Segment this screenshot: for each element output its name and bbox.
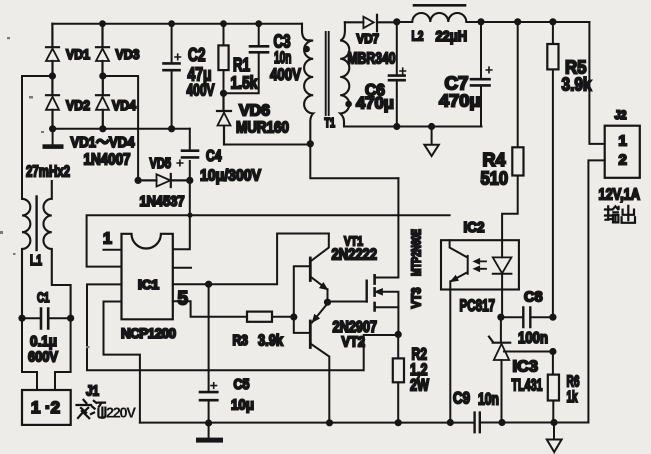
- wire +12V to J2 pin1: [589, 22, 604, 144]
- resistor R1: [218, 24, 228, 94]
- T1 secondary phase dot: [345, 101, 352, 108]
- svg-text:2N2222: 2N2222: [332, 247, 378, 264]
- node ground/C5: [205, 419, 212, 426]
- svg-text:VD1: VD1: [66, 46, 90, 62]
- svg-text:470μ: 470μ: [439, 91, 481, 111]
- wire J2 pin2 return: [588, 160, 604, 422]
- connector J2: [605, 126, 640, 178]
- pin 1 stub: [104, 249, 122, 251]
- resistor R5: [547, 22, 558, 317]
- svg-text:VD4: VD4: [112, 97, 136, 113]
- transistor Q VT1 2N2222: [294, 234, 329, 318]
- node C1 right: [67, 315, 74, 322]
- transistor Q VT2 2N2907: [294, 304, 330, 423]
- capacitor C3: [224, 24, 269, 94]
- node C8 right / R5: [549, 314, 556, 321]
- svg-text:C2: C2: [188, 45, 206, 65]
- node VD5 anode / L1: [135, 177, 142, 184]
- svg-text:C4: C4: [206, 148, 222, 165]
- svg-text:2: 2: [619, 152, 627, 169]
- svg-text:VD1～VD4: VD1～VD4: [71, 134, 136, 151]
- node AC1 (VD1/VD2 junction): [49, 72, 56, 79]
- node R5 top: [549, 18, 556, 25]
- svg-text:400V: 400V: [187, 82, 215, 100]
- wire T1 primary bottom to drain: [310, 144, 398, 178]
- svg-text:1.5k: 1.5k: [231, 73, 258, 93]
- svg-text:600V: 600V: [28, 349, 58, 366]
- resistor R3: [247, 312, 272, 322]
- wire C1 left to J1: [22, 318, 37, 390]
- svg-text:12V,1A: 12V,1A: [599, 187, 641, 204]
- node VD5/C4 (VCC feed): [186, 177, 193, 184]
- optocoupler IC2 PC817: [441, 240, 519, 422]
- svg-text:220V: 220V: [106, 406, 136, 422]
- node R1/C3/VD6: [220, 90, 227, 97]
- IC U1 NCP1200 body: [122, 234, 173, 319]
- svg-text:27mHx2: 27mHx2: [26, 164, 70, 181]
- node VD7/C6/L2: [393, 18, 400, 25]
- svg-text:NCP1200: NCP1200: [121, 326, 176, 341]
- svg-text:VD6: VD6: [239, 103, 270, 120]
- wire pin6 VCC to driver: [173, 234, 329, 285]
- svg-text:C8: C8: [524, 290, 543, 306]
- svg-text:L2: L2: [412, 28, 424, 44]
- svg-text:2N2907: 2N2907: [333, 319, 378, 336]
- svg-text:3.9k: 3.9k: [258, 333, 283, 350]
- node VCC/C5: [205, 281, 212, 288]
- resistor R2: [393, 334, 404, 422]
- svg-text:1N4537: 1N4537: [140, 193, 185, 210]
- node R6 bottom / ground: [550, 419, 557, 426]
- node opto emitter / ground rail: [447, 419, 454, 426]
- svg-text:T1: T1: [325, 116, 336, 130]
- svg-text:C9: C9: [453, 390, 470, 408]
- svg-text:22μH: 22μH: [436, 29, 468, 45]
- wire secondary minus rail: [344, 126, 482, 128]
- capacitor C7: [471, 22, 492, 127]
- svg-text:510: 510: [481, 168, 509, 189]
- svg-text:R6: R6: [567, 374, 580, 391]
- node top rail / R1: [220, 20, 227, 27]
- svg-text:MUR160: MUR160: [236, 120, 289, 137]
- svg-text:1k: 1k: [567, 389, 578, 406]
- capacitor C8: [501, 308, 553, 328]
- node C7 top: [477, 18, 484, 25]
- svg-text:J1: J1: [86, 384, 99, 400]
- inductor L2: [397, 5, 590, 22]
- svg-text:J2: J2: [615, 108, 627, 122]
- wire FB line (pin2 loop and opto collector line): [87, 215, 450, 266]
- wire TL431 ref: [504, 351, 553, 353]
- scan speckles: [0, 37, 90, 348]
- resistor R6: [548, 352, 559, 423]
- diode VD1: [46, 24, 59, 76]
- wire AC1 to L1 left: [22, 76, 52, 199]
- svg-text:470μ: 470μ: [356, 95, 394, 113]
- inductor L1 common-mode choke: [22, 181, 71, 318]
- transformer T1 secondary winding: [340, 22, 349, 126]
- wire pin5 Drv to R3: [173, 301, 247, 317]
- ground bar primary (C5): [196, 423, 223, 443]
- svg-text:C1: C1: [37, 289, 50, 305]
- wire pin4 to ground rail: [104, 302, 140, 423]
- svg-text:TL431: TL431: [512, 376, 543, 395]
- node C1 left: [18, 315, 25, 322]
- node DC- / VD2: [49, 125, 56, 132]
- wire AC2 to VD5 node: [103, 76, 138, 180]
- svg-text:MBR340: MBR340: [348, 51, 396, 68]
- svg-text:IC3: IC3: [513, 359, 539, 376]
- node TL431 cathode / C8: [497, 314, 504, 321]
- svg-text:VT2: VT2: [342, 335, 366, 351]
- svg-text:C5: C5: [234, 377, 250, 393]
- node DC- / C2: [168, 125, 175, 132]
- node R2 bottom: [395, 419, 402, 426]
- svg-text:IC1: IC1: [138, 278, 159, 292]
- diode VD6: [217, 93, 231, 144]
- svg-text:1N4007: 1N4007: [84, 152, 131, 169]
- svg-text:PC817: PC817: [460, 297, 496, 315]
- ground (secondary, open triangle at C6/C7 rail): [424, 127, 438, 157]
- svg-text:10μ/300V: 10μ/300V: [200, 168, 261, 185]
- node DC- / VD4: [99, 125, 106, 132]
- connector J1: [22, 390, 71, 425]
- diode VD5: [138, 174, 190, 187]
- label output (Chinese): [605, 206, 635, 223]
- diode VD4: [96, 76, 109, 129]
- svg-text:VT3: VT3: [409, 288, 424, 309]
- transformer T1 primary winding: [302, 24, 313, 144]
- transformer T1 core: [326, 32, 329, 115]
- resistor R4: [502, 22, 523, 240]
- svg-text:L1: L1: [30, 253, 42, 269]
- node AC2 (VD3/VD4 junction): [99, 72, 106, 79]
- node R4 top: [514, 18, 521, 25]
- MOSFET VT3 MTP2N60E: [328, 178, 399, 334]
- svg-text:3.9k: 3.9k: [562, 75, 593, 95]
- svg-text:IC2: IC2: [464, 219, 485, 236]
- capacitor C4: [177, 129, 198, 181]
- diode VD7: [345, 15, 397, 31]
- wire VCC node down to IC1 pin8: [173, 180, 190, 249]
- svg-text:0.1μ: 0.1μ: [30, 333, 57, 350]
- node FB/VCC cross: [187, 213, 192, 218]
- ground bar primary (bridge): [43, 129, 64, 149]
- wire secondary ground rail: [480, 422, 588, 424]
- pin 7 stub: [173, 267, 191, 269]
- node VT1/VT2 emitters: [324, 299, 331, 306]
- svg-text:5: 5: [178, 289, 189, 310]
- node TL431 anode / ground rail: [498, 419, 505, 426]
- wire DC+ top rail: [52, 23, 302, 25]
- svg-text:1: 1: [103, 231, 112, 248]
- wire R3 to bases: [272, 316, 294, 318]
- capacitor C1: [22, 309, 71, 329]
- node ref / divider: [549, 348, 556, 355]
- svg-text:100n: 100n: [518, 330, 548, 347]
- shunt regulator IC3 TL431: [489, 317, 510, 422]
- capacitor C6: [389, 22, 406, 127]
- ground (secondary, open triangle bottom right): [547, 423, 562, 453]
- wire VD6 to T1 primary bottom: [224, 144, 310, 146]
- label AC 220V (Chinese): [77, 400, 137, 422]
- capacitor C2: [164, 24, 181, 129]
- node ground stub secondary rail: [428, 123, 435, 130]
- capacitor C9 (Y-cap in ground rail): [475, 413, 480, 433]
- T1 primary phase dot: [303, 46, 310, 53]
- wire DC- rail: [53, 128, 190, 130]
- node driver base: [290, 313, 297, 320]
- wire C1 right to J1: [55, 318, 71, 390]
- svg-text:10n: 10n: [478, 391, 499, 409]
- capacitor C5: [200, 284, 217, 423]
- svg-text:10μ: 10μ: [231, 397, 254, 414]
- node VT2 collector / ground rail: [326, 419, 333, 426]
- node top rail / C2: [168, 20, 175, 27]
- svg-text:1 ·2: 1 ·2: [31, 399, 60, 417]
- svg-text:MTP2N60E: MTP2N60E: [409, 229, 424, 276]
- svg-text:VD3: VD3: [116, 46, 140, 62]
- node C6 bottom: [393, 123, 400, 130]
- diode VD3: [96, 24, 109, 76]
- node top rail / VD3: [99, 20, 106, 27]
- node T1 primary bottom: [307, 140, 314, 147]
- diode VD2: [46, 76, 59, 129]
- svg-text:1: 1: [619, 133, 627, 150]
- svg-text:VD7: VD7: [357, 31, 380, 46]
- svg-text:VD2: VD2: [66, 97, 90, 113]
- node MOSFET source / R2: [395, 331, 402, 338]
- svg-text:2W: 2W: [410, 377, 429, 395]
- svg-text:R3: R3: [233, 333, 249, 349]
- wire pin3 to CS net: [87, 284, 398, 370]
- wire primary ground rail: [140, 422, 474, 424]
- svg-text:VD5: VD5: [150, 156, 172, 172]
- node top rail / C3: [255, 20, 262, 27]
- svg-text:400V: 400V: [270, 65, 302, 84]
